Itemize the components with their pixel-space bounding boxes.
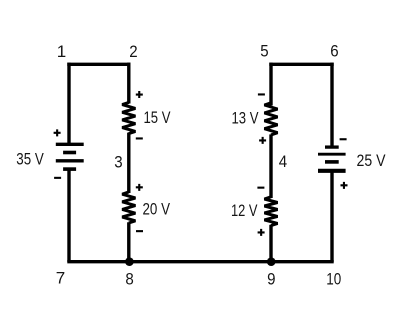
resistor 13 V <box>264 103 277 135</box>
battery 35V plus sign <box>54 129 61 136</box>
resistor 13V plus sign <box>259 137 266 144</box>
svg-text:7: 7 <box>56 269 65 288</box>
resistor 12V plus sign <box>258 229 265 236</box>
battery 25V minus sign <box>340 138 347 140</box>
svg-text:4: 4 <box>279 152 287 171</box>
battery B1 35 V long plate (top, +) <box>56 143 84 146</box>
battery B2 25 V long plate <box>318 153 346 156</box>
wire 12V resistor down to node 9 <box>269 225 272 262</box>
wire node2 vertical down to 15V resistor <box>127 63 130 104</box>
svg-text:8: 8 <box>125 270 133 289</box>
battery B1 35 V long plate <box>56 159 84 162</box>
junction dot node 9 <box>267 257 276 266</box>
wire between 13V and 12V resistors (node 4 branch) <box>269 134 272 198</box>
resistor 13V minus sign <box>258 93 265 95</box>
wire between 15V and 20V resistors (node 3 branch) <box>127 133 130 193</box>
svg-text:6: 6 <box>330 42 338 61</box>
wire top-left horizontal (node 1 to node 2) <box>67 63 130 66</box>
battery B1 35 V short plate <box>63 151 76 155</box>
resistor 15V minus sign <box>136 137 143 139</box>
resistor 20V plus sign <box>136 184 143 191</box>
wire bottom rail (nodes 7-8-9-10) <box>67 260 333 263</box>
resistor 12 V <box>264 197 277 226</box>
battery B2 25 V long plate (bottom, +) <box>318 169 346 173</box>
junction dot node 8 <box>125 257 134 266</box>
svg-text:2: 2 <box>129 42 137 61</box>
svg-text:20 V: 20 V <box>143 200 171 219</box>
wire battery 35V bottom to node 7 <box>67 171 70 263</box>
resistor 15 V <box>122 102 135 133</box>
battery B2 25 V short plate (top, -) <box>325 145 339 148</box>
battery B2 25 V short plate <box>325 160 339 164</box>
battery 35V minus sign <box>54 177 61 179</box>
wire node1 left vertical down to battery 35V <box>67 63 70 143</box>
svg-text:1: 1 <box>57 42 66 61</box>
wire node6 vertical down to battery 25V <box>330 63 333 146</box>
wire top-right horizontal (node 5 to node 6) <box>269 63 333 66</box>
svg-text:15 V: 15 V <box>144 108 172 127</box>
svg-text:25 V: 25 V <box>357 151 387 170</box>
resistor 20 V <box>122 192 135 223</box>
battery B1 35 V short plate (bottom, -) <box>63 167 76 171</box>
resistor 12V minus sign <box>257 187 264 189</box>
wire battery 25V bottom to node 10 <box>330 172 333 262</box>
svg-text:12 V: 12 V <box>231 201 258 220</box>
svg-text:3: 3 <box>114 152 122 171</box>
svg-text:10: 10 <box>326 270 341 289</box>
svg-text:35 V: 35 V <box>16 150 44 169</box>
resistor 20V minus sign <box>136 230 143 232</box>
resistor 15V plus sign <box>136 91 143 98</box>
svg-text:5: 5 <box>260 42 268 61</box>
wire 20V resistor down to node 8 <box>127 222 130 262</box>
battery 25V plus sign <box>341 182 348 189</box>
wire node5 vertical down to 13V resistor <box>269 63 272 106</box>
svg-text:9: 9 <box>267 270 275 289</box>
svg-text:13 V: 13 V <box>232 108 260 127</box>
